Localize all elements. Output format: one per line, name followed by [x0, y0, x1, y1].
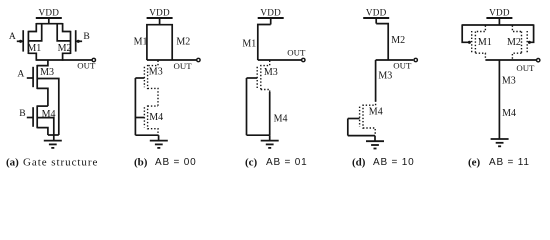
caption (b) [134, 156, 148, 168]
transistor M2 (dotted, e) - channel [521, 32, 523, 54]
wire: ground bus (a) [48, 134, 59, 136]
transistor M2 (PMOS, panel a) - gate bar [75, 30, 77, 51]
wire: ground stem (c) [269, 135, 271, 140]
wire: ground stem (d) [374, 136, 376, 142]
power VDD rail (panel d) [363, 17, 389, 19]
svg-text:OUT: OUT [77, 60, 96, 70]
caption (a) [6, 156, 19, 168]
svg-text:M3: M3 [40, 67, 54, 78]
caption (c) [245, 156, 258, 168]
wire: ground stem (b) [158, 135, 160, 140]
wire: M4 gate bus down to ground (d) [347, 119, 349, 136]
svg-text:Gate structure: Gate structure [23, 156, 98, 168]
transistor M1 (dotted, e) - drain lead to node [475, 53, 485, 59]
wire: output node line (e) [485, 59, 536, 61]
caption (e) [468, 156, 481, 168]
transistor M4 (dotted, b) - channel [147, 105, 149, 129]
svg-text:M4: M4 [369, 107, 383, 118]
wire: output node line (a) [36, 59, 93, 61]
transistor M1 (dotted, e) - source lead from VDD fork [475, 26, 485, 32]
wire: M3 gate bus down to ground (c) [246, 78, 248, 135]
svg-text:OUT: OUT [174, 61, 193, 71]
wire: ground bus (d) [348, 135, 375, 137]
node OUT terminal circle (e) [537, 59, 540, 62]
wire: VDD stub (c) [270, 18, 272, 25]
svg-text:M3: M3 [502, 76, 516, 87]
transistor M1 (PMOS, panel a) - source lead [28, 23, 36, 32]
wire: VDD stub (b) [159, 18, 161, 25]
svg-text:(b): (b) [134, 156, 148, 168]
svg-text:M2: M2 [176, 37, 190, 48]
wire: VDD stub (a) [48, 18, 50, 24]
transistor M2 (PMOS, panel a) - bulk lead to VDD [57, 23, 70, 41]
transistor M3 (NMOS, panel a) - bulk lead to ground bus [37, 79, 59, 136]
transistor M3 and M4 (on, wire, panel e) conduction path to ground [498, 60, 500, 139]
wire: gate bus down to ground (b) [134, 78, 136, 135]
svg-text:B: B [19, 108, 25, 119]
transistor M3 (dotted, b) - channel [147, 65, 149, 89]
transistor M3 (dotted, c) - source lead [261, 90, 270, 93]
ground (panel e) [491, 139, 509, 146]
transistor M1 (on, wire, panel b) and M2 (on, wire) conduction box [147, 25, 172, 60]
transistor M2 (PMOS, panel a) - channel [70, 31, 72, 54]
transistor M4 (NMOS, panel a) - bulk lead to ground bus [37, 118, 54, 141]
transistor M3 (dotted, b) - gate bar [143, 67, 145, 87]
transistor M4 (NMOS, panel a) - drain lead from M3 [37, 105, 48, 107]
svg-text:OUT: OUT [393, 61, 412, 71]
gate dot M2 (e) [528, 41, 531, 44]
svg-text:VDD: VDD [260, 7, 281, 17]
wire: gate tie of M4 to logic 0 (d) [348, 118, 360, 120]
power VDD rail (panel b) [147, 17, 173, 19]
svg-text:M1: M1 [27, 43, 41, 54]
input A wire to M1 gate (a) [17, 40, 23, 42]
wire: output node line (d) [376, 59, 414, 61]
transistor M1 (PMOS off, dotted, panel e) - gate bar [471, 31, 473, 54]
transistor M1 (PMOS, panel a) - drain lead to output node [28, 53, 36, 60]
transistor M4 (NMOS off, dotted, panel b) - drain lead [148, 105, 158, 107]
power VDD rail (panel c) [258, 17, 284, 19]
svg-text:(e): (e) [468, 156, 481, 168]
svg-text:OUT: OUT [516, 63, 535, 73]
svg-text:M4: M4 [502, 108, 516, 119]
wire: VDD stub (d) [375, 18, 377, 24]
svg-text:(a): (a) [6, 156, 19, 168]
transistor M3 (NMOS, panel a) - gate lead [27, 77, 33, 79]
node OUT terminal circle (a) [92, 58, 95, 61]
ground (panel d) [366, 141, 384, 148]
node OUT terminal circle (d) [414, 58, 417, 61]
wire: VDD stub (e) [498, 18, 500, 25]
svg-text:(d): (d) [352, 156, 366, 168]
wire: gate tie of M2 to VDD (e) [529, 24, 533, 42]
node OUT terminal circle (c) [302, 58, 305, 61]
svg-text:M4: M4 [274, 114, 288, 125]
svg-text:M1: M1 [478, 37, 492, 48]
transistor M4 (dotted, d) - gate bar [359, 107, 361, 127]
wire: gate tie of M3 to logic 0 (c) [247, 77, 258, 79]
transistor M4 (NMOS, panel a) - source lead to ground bus [37, 128, 48, 135]
transistor M1 (PMOS, panel a) - channel [27, 31, 29, 54]
transistor M4 (dotted, b) - source lead to bus [148, 129, 158, 136]
svg-text:M2: M2 [58, 43, 72, 54]
svg-text:AB = 00: AB = 00 [155, 157, 196, 168]
svg-text:VDD: VDD [489, 7, 510, 17]
wire: gate tie of M1 to VDD (e) [462, 24, 469, 42]
input B wire to M2 gate (a) [76, 40, 82, 42]
wire: VDD fork rail (e) [462, 24, 533, 26]
transistor M4 (dotted, d) - source lead to bus [363, 128, 375, 136]
transistor M4 (dotted, b) - gate bar [143, 107, 145, 127]
svg-text:M3: M3 [149, 66, 163, 77]
svg-text:VDD: VDD [366, 7, 387, 17]
svg-text:VDD: VDD [38, 7, 59, 17]
wire: output node line (c) [258, 59, 303, 61]
wire: node to M3 drain (a) [37, 60, 48, 66]
wire: VDD fork rail (a) [36, 23, 62, 25]
transistor M3 (on, wire, panel d) conduction path [375, 60, 377, 102]
svg-text:AB = 11: AB = 11 [489, 157, 530, 168]
transistor M2 (dotted, e) - drain lead to node [512, 53, 521, 59]
power VDD rail (panel a) [36, 17, 62, 19]
transistor M3 (NMOS, panel a) - gate bar [32, 67, 34, 87]
transistor M3 (NMOS off, dotted, panel b) - drain lead from node [148, 61, 158, 66]
svg-text:M3: M3 [378, 71, 392, 82]
transistor M3 (NMOS, panel a) - source lead down to M4 [37, 88, 48, 106]
svg-text:B: B [83, 31, 89, 42]
transistor M3 (dotted, b) - source lead [148, 88, 158, 106]
transistor M3 (NMOS, panel a) - channel [36, 65, 38, 89]
ground (panel a) [44, 141, 62, 148]
gate dot M1 (e) [468, 41, 471, 44]
transistor M4 (on, wire, panel c) conduction path [269, 92, 271, 135]
transistor M4 (dotted, d) - channel [362, 105, 364, 129]
transistor M2 (PMOS, panel a) - source lead [63, 23, 71, 32]
ground (panel b) [150, 141, 168, 148]
transistor M3 (dotted, c) - channel [260, 65, 262, 90]
svg-text:VDD: VDD [149, 7, 170, 17]
transistor M2 (on, wire, panel d) conduction path [376, 24, 388, 60]
node OUT terminal circle (b) [197, 58, 200, 61]
transistor M2 (PMOS off, dotted, panel e) - gate bar [526, 31, 528, 54]
transistor M1 (dotted, e) - channel [474, 32, 476, 54]
transistor M4 (NMOS, panel a) - gate lead [27, 117, 33, 119]
svg-text:M1: M1 [134, 37, 148, 48]
wire: output node line (b) [147, 59, 198, 61]
wire: gate tie of M4 to logic 0 (b) [135, 117, 144, 119]
transistor M4 (NMOS off, dotted, panel d) - drain lead [363, 101, 376, 106]
transistor M1 (PMOS, panel a) - gate bar [22, 30, 24, 51]
transistor M1 (PMOS, panel a) - bulk lead to VDD [28, 23, 41, 41]
svg-text:A: A [9, 31, 16, 42]
transistor M2 (dotted, e) - source lead from VDD fork [512, 26, 521, 32]
svg-text:M4: M4 [149, 112, 163, 123]
svg-text:OUT: OUT [287, 47, 306, 57]
svg-text:M2: M2 [391, 35, 405, 46]
transistor M4 (NMOS, panel a) - channel [36, 105, 38, 128]
svg-text:AB = 01: AB = 01 [266, 157, 307, 168]
transistor M2 (PMOS, panel a) - drain lead to output node [63, 53, 71, 60]
svg-text:(c): (c) [245, 156, 258, 168]
svg-text:M2: M2 [507, 37, 521, 48]
caption (d) [352, 156, 366, 168]
svg-text:M3: M3 [264, 67, 278, 78]
wire: gate tie of M3 to logic 0 (b) [135, 77, 144, 79]
svg-text:M1: M1 [242, 38, 256, 49]
transistor M3 (dotted, c) - gate bar [256, 67, 258, 88]
power VDD rail (panel e) [486, 17, 512, 19]
gate dot M1 (a) [19, 40, 22, 43]
transistor M3 (NMOS off, dotted, panel c) - drain lead from node [261, 61, 270, 66]
svg-text:AB = 10: AB = 10 [373, 157, 414, 168]
transistor M4 (NMOS, panel a) - gate bar [32, 107, 34, 127]
transistor M1 (on, wire, panel c) conduction path [258, 25, 271, 61]
gate dot M2 (a) [77, 40, 80, 43]
ground (panel c) [261, 141, 279, 148]
svg-text:A: A [17, 69, 24, 80]
wire: ground bus (b) [135, 134, 158, 136]
wire: ground bus (c) [247, 134, 270, 136]
